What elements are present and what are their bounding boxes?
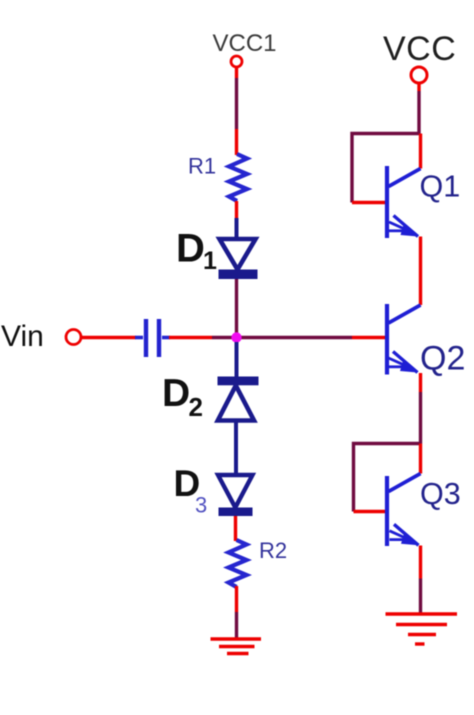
ground (left): [211, 639, 262, 654]
svg-text:VCC1: VCC1: [212, 30, 276, 57]
wire VCC1 to R1: [235, 68, 238, 156]
svg-text:Q1: Q1: [420, 170, 461, 204]
wire R2 to ground: [235, 586, 238, 638]
svg-text:VCC: VCC: [383, 30, 456, 68]
wire Q1 base-collector loop: [352, 134, 421, 203]
transistor Q2: [387, 304, 421, 375]
transistor Q3: [387, 474, 421, 547]
wire Q3 emitter to ground: [419, 546, 422, 614]
wire Q2 emitter to Q3: [419, 373, 422, 444]
svg-text:1: 1: [203, 247, 217, 275]
wire D3 to R2: [234, 516, 237, 541]
terminal Vin: [66, 330, 81, 345]
wire Q1 emitter to Q2 collector: [419, 237, 422, 306]
svg-text:R2: R2: [259, 538, 287, 563]
diode D3: [218, 475, 253, 516]
svg-text:3: 3: [195, 493, 207, 518]
svg-text:Q2: Q2: [420, 340, 465, 378]
ground (right): [386, 614, 458, 644]
svg-text:D: D: [162, 372, 190, 415]
svg-text:2: 2: [189, 392, 203, 422]
wire Vin to C1: [82, 336, 137, 339]
transistor Q1: [387, 166, 421, 238]
wire D2 to D3: [234, 421, 238, 476]
node A: [231, 332, 241, 342]
wire node A to Q2 base: [237, 336, 388, 339]
wire C1 to node A: [169, 336, 237, 339]
wire D1 to node A: [235, 279, 238, 334]
wire VCC to Q1: [417, 83, 420, 134]
diode D1: [219, 218, 258, 279]
resistor R2: [229, 540, 247, 587]
capacitor C1: [135, 319, 170, 357]
wire R1 to D1: [235, 201, 238, 220]
wire node A to D2: [235, 342, 239, 377]
svg-text:R1: R1: [188, 154, 216, 179]
svg-text:Vin: Vin: [1, 320, 44, 353]
terminal VCC1: [231, 56, 242, 67]
wire Q3 base-collector loop: [354, 444, 421, 512]
svg-text:D: D: [176, 227, 205, 271]
svg-text:Q3: Q3: [420, 477, 461, 511]
terminal VCC: [411, 67, 427, 83]
resistor R1: [229, 154, 247, 201]
diode D2: [218, 377, 259, 421]
